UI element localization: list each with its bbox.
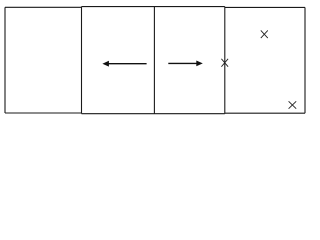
wire bottom edge tall middle section [82,113,225,115]
wire top edge tall middle section [82,6,225,8]
wire left border [4,7,6,113]
wire divider B [153,7,155,114]
wire top edge right section [225,6,305,8]
node X lower right [289,101,297,108]
wire divider C [224,7,226,114]
wire divider A [81,7,83,114]
wire bottom edge left section [5,112,82,114]
node X upper right [261,30,268,38]
arrow left [102,61,146,67]
node X on divider C [221,59,228,67]
arrow right [168,61,203,67]
wire top edge left section [5,6,82,8]
wire bottom edge right section [225,112,305,114]
wire right border [304,7,306,113]
